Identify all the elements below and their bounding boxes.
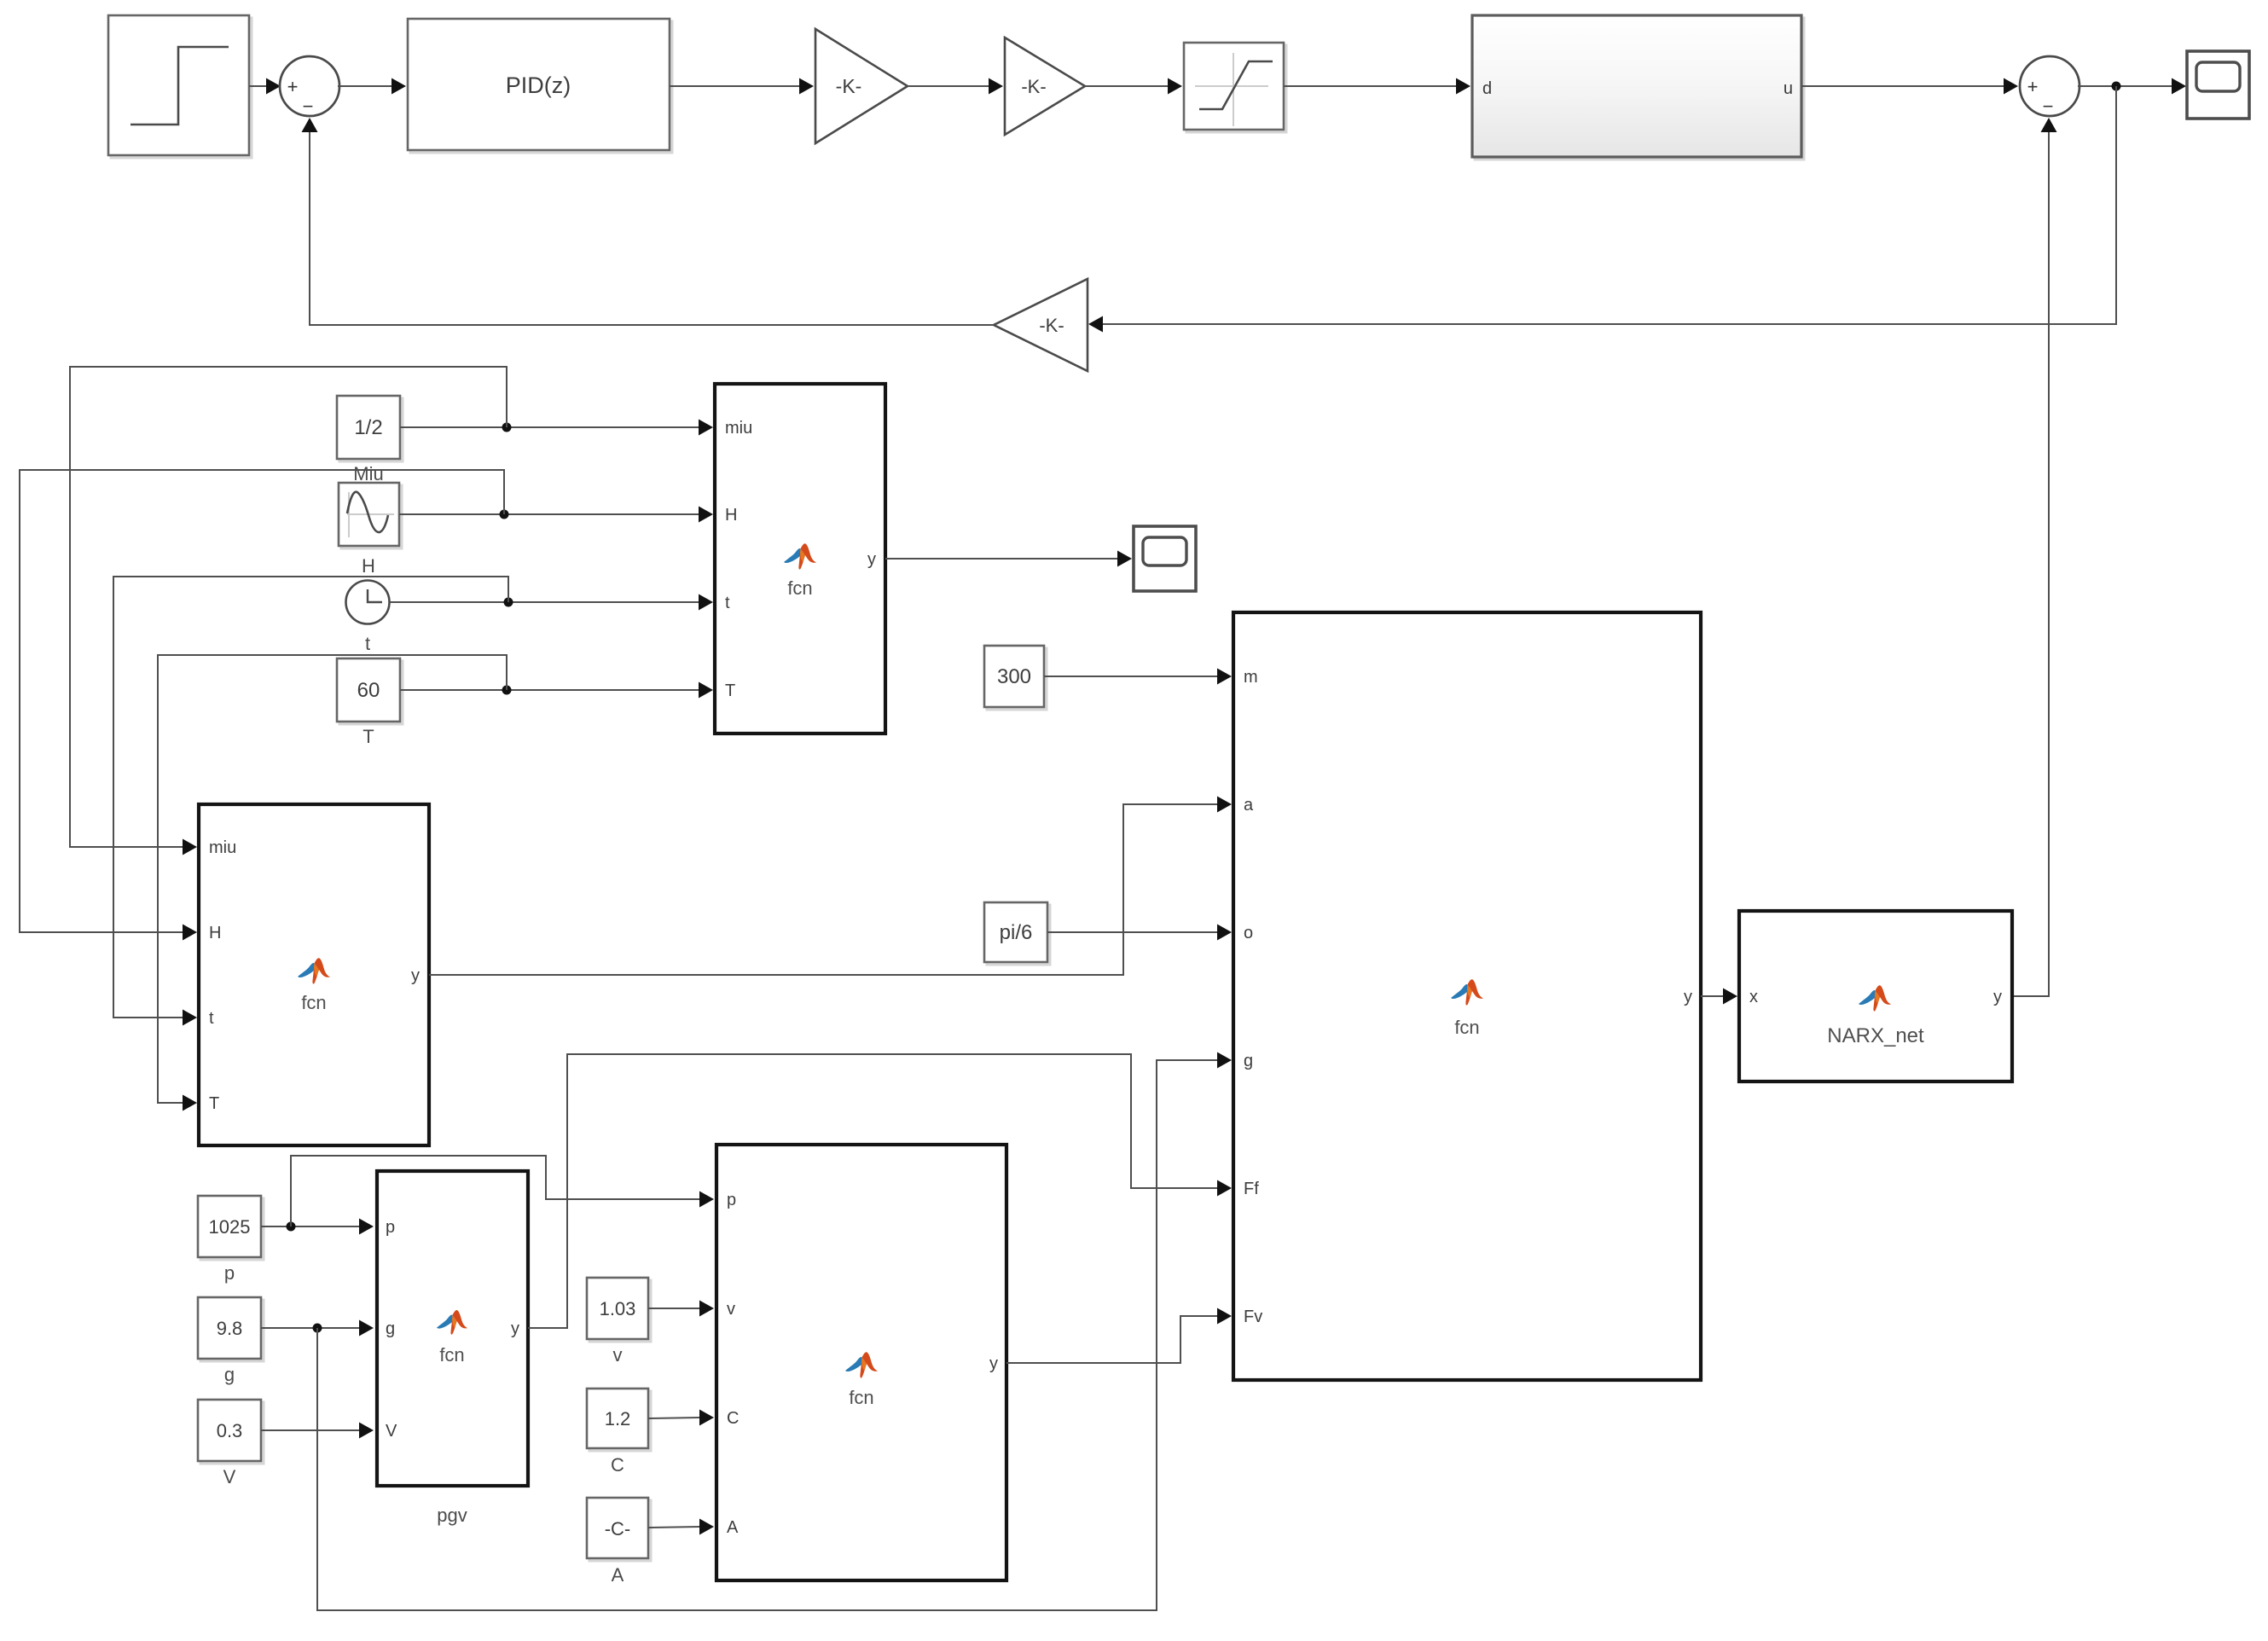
MATLAB function block fcn1 (miu,H,t,T -> y) bbox=[715, 384, 885, 734]
svg-text:H: H bbox=[725, 506, 737, 525]
sine wave source block H bbox=[339, 483, 402, 548]
svg-text:300: 300 bbox=[997, 665, 1031, 688]
svg-text:v: v bbox=[727, 1300, 735, 1319]
MATLAB function block fcn3 (m,a,o,g,Ff,Fv -> y) bbox=[1233, 612, 1701, 1380]
MATLAB function block NARX_net (x -> y) bbox=[1739, 911, 2012, 1081]
svg-text:p: p bbox=[386, 1218, 395, 1237]
svg-text:-K-: -K- bbox=[836, 75, 862, 97]
svg-text:+: + bbox=[2027, 76, 2039, 97]
svg-text:-K-: -K- bbox=[1021, 76, 1046, 97]
MATLAB function block fcn4 (p,v,C,A -> y) bbox=[716, 1145, 1006, 1580]
PID controller block PID(z) bbox=[408, 19, 672, 153]
MATLAB function block pgv (p,g,V -> y) bbox=[377, 1171, 528, 1486]
svg-text:pi/6: pi/6 bbox=[1000, 921, 1033, 944]
scope block Scope1 bbox=[2187, 51, 2249, 119]
svg-text:t: t bbox=[209, 1009, 214, 1028]
svg-text:9.8: 9.8 bbox=[217, 1318, 243, 1339]
MATLAB function block fcn2 (miu,H,t,T -> y) bbox=[199, 804, 429, 1145]
wire 1.2 to fcn4 C bbox=[648, 1410, 714, 1426]
svg-text:Fv: Fv bbox=[1244, 1308, 1262, 1326]
wire fcn3 y to NARX_net x bbox=[1701, 989, 1737, 1005]
svg-text:fcn: fcn bbox=[849, 1387, 873, 1408]
constant block pi/6 bbox=[984, 902, 1050, 965]
svg-text:fcn: fcn bbox=[301, 992, 326, 1013]
gain block K1 (-K-) bbox=[815, 29, 908, 143]
svg-text:y: y bbox=[989, 1354, 998, 1373]
svg-text:p: p bbox=[224, 1262, 235, 1284]
label T bbox=[363, 726, 374, 747]
svg-text:1.03: 1.03 bbox=[600, 1298, 636, 1319]
wire fcn4 y to fcn3 Fv input bbox=[1006, 1308, 1232, 1364]
clock source block t bbox=[346, 581, 390, 624]
svg-text:-K-: -K- bbox=[1039, 315, 1064, 336]
svg-text:m: m bbox=[1244, 668, 1258, 687]
svg-text:g: g bbox=[1244, 1052, 1253, 1070]
svg-text:A: A bbox=[612, 1564, 624, 1586]
svg-text:Ff: Ff bbox=[1244, 1180, 1259, 1198]
saturation block bbox=[1184, 43, 1286, 132]
step source block Step bbox=[108, 15, 252, 158]
label H bbox=[362, 555, 375, 577]
wire 9.8 to pgv g with junction bbox=[261, 1320, 374, 1337]
svg-text:v: v bbox=[613, 1344, 623, 1366]
constant block 9.8 bbox=[198, 1297, 264, 1361]
svg-text:0.3: 0.3 bbox=[217, 1420, 243, 1441]
wire PID to gain K1 bbox=[670, 78, 814, 95]
wire fcn1 y to scope2 bbox=[885, 551, 1132, 567]
svg-text:-C-: -C- bbox=[605, 1518, 631, 1540]
svg-text:−: − bbox=[303, 96, 314, 117]
svg-text:Miu: Miu bbox=[353, 463, 383, 484]
gain block K2 (-K-) bbox=[1005, 38, 1085, 135]
label V bbox=[223, 1466, 236, 1487]
wire branch 1025 to fcn4 p bbox=[291, 1156, 714, 1226]
wire step to sum junction S1 bbox=[249, 78, 281, 95]
svg-text:V: V bbox=[386, 1422, 397, 1441]
wire subsystem u to sum S2 bbox=[1801, 78, 2018, 95]
wire branch t to fcn2 t bbox=[113, 577, 508, 1026]
svg-text:g: g bbox=[224, 1364, 235, 1385]
wire sine to fcn1 H with junction bbox=[399, 507, 713, 523]
constant block 60 bbox=[337, 658, 403, 724]
svg-text:u: u bbox=[1784, 79, 1793, 98]
sum block S1 (+/-) bbox=[280, 56, 339, 117]
label t bbox=[365, 633, 370, 654]
svg-text:pgv: pgv bbox=[437, 1505, 467, 1526]
svg-text:t: t bbox=[725, 594, 730, 612]
svg-text:H: H bbox=[209, 924, 221, 942]
label Miu bbox=[353, 463, 383, 484]
svg-text:A: A bbox=[727, 1518, 739, 1537]
svg-text:y: y bbox=[411, 966, 420, 985]
svg-text:g: g bbox=[386, 1319, 395, 1338]
svg-text:fcn: fcn bbox=[787, 577, 812, 599]
subsystem plant block (d -> u) bbox=[1472, 15, 1804, 159]
wire S1 to PID bbox=[338, 78, 406, 95]
wire pgv y to fcn3 Ff input bbox=[528, 1054, 1232, 1328]
wire branch H to fcn2 H bbox=[20, 470, 504, 941]
svg-text:t: t bbox=[365, 633, 370, 654]
svg-text:T: T bbox=[725, 681, 735, 700]
wire K1 to gain K2 bbox=[908, 78, 1003, 95]
svg-text:1025: 1025 bbox=[209, 1216, 251, 1238]
constant block 1/2 bbox=[337, 396, 403, 461]
svg-text:1.2: 1.2 bbox=[605, 1408, 631, 1429]
svg-text:PID(z): PID(z) bbox=[506, 72, 571, 98]
constant block 1.2 bbox=[587, 1389, 651, 1451]
wire -C- to fcn4 A bbox=[648, 1519, 714, 1535]
svg-text:C: C bbox=[727, 1409, 739, 1428]
svg-text:T: T bbox=[363, 726, 374, 747]
constant block 0.3 bbox=[198, 1400, 264, 1464]
wire 1.03 to fcn4 v bbox=[648, 1301, 714, 1317]
wire fcn2 y to fcn3 a input bbox=[429, 797, 1232, 976]
label pgv bbox=[437, 1505, 467, 1526]
wire 0.3 to pgv V bbox=[261, 1423, 374, 1439]
svg-text:p: p bbox=[727, 1191, 736, 1209]
svg-text:fcn: fcn bbox=[1454, 1017, 1479, 1038]
wire branch T to fcn2 T bbox=[158, 655, 507, 1111]
svg-text:NARX_net: NARX_net bbox=[1827, 1024, 1924, 1047]
svg-text:+: + bbox=[287, 76, 299, 97]
wire NARX_net y to S2 minus input bbox=[2012, 118, 2057, 996]
svg-text:o: o bbox=[1244, 924, 1253, 942]
label p bbox=[224, 1262, 235, 1284]
svg-text:y: y bbox=[1684, 988, 1692, 1006]
constant block -C- bbox=[587, 1498, 651, 1561]
wire S2 to scope with junction node bbox=[2078, 78, 2186, 95]
wire 1025 to pgv p with junction bbox=[261, 1219, 374, 1235]
svg-text:x: x bbox=[1749, 988, 1758, 1006]
svg-text:y: y bbox=[1993, 988, 2002, 1006]
svg-text:T: T bbox=[209, 1094, 219, 1113]
wire 60 to fcn1 T with junction bbox=[400, 682, 713, 699]
label A bbox=[612, 1564, 624, 1586]
wire branch 9.8 to fcn3 g input bbox=[317, 1052, 1232, 1611]
label g bbox=[224, 1364, 235, 1385]
wire K2 to saturation bbox=[1085, 78, 1182, 95]
constant block 1025 bbox=[198, 1196, 264, 1260]
label C bbox=[611, 1454, 624, 1476]
svg-text:y: y bbox=[867, 550, 876, 569]
wire 300 to fcn3 m bbox=[1044, 669, 1232, 685]
svg-text:V: V bbox=[223, 1466, 236, 1487]
constant block 1.03 bbox=[587, 1278, 651, 1342]
wire branch miu to fcn2 miu bbox=[70, 367, 507, 855]
svg-text:d: d bbox=[1482, 79, 1492, 98]
wire K3 output to S1 minus input bbox=[302, 118, 995, 325]
svg-text:C: C bbox=[611, 1454, 624, 1476]
svg-text:1/2: 1/2 bbox=[354, 416, 382, 439]
wire saturation to subsystem d bbox=[1284, 78, 1470, 95]
svg-text:−: − bbox=[2043, 96, 2054, 117]
svg-text:60: 60 bbox=[357, 679, 380, 702]
scope block Scope2 bbox=[1134, 526, 1196, 591]
wire 1/2 to fcn1 miu with junction bbox=[400, 420, 713, 436]
wire clock to fcn1 t with junction bbox=[389, 594, 713, 611]
wire pi/6 to fcn3 o bbox=[1047, 925, 1232, 941]
constant block 300 bbox=[984, 646, 1047, 710]
svg-text:H: H bbox=[362, 555, 375, 577]
feedback gain block K3 (-K-) bbox=[994, 279, 1088, 371]
label v bbox=[613, 1344, 623, 1366]
svg-text:miu: miu bbox=[209, 838, 236, 857]
wire feedback from junction to gain K3 bbox=[1088, 86, 2116, 333]
svg-text:a: a bbox=[1244, 796, 1254, 815]
svg-text:fcn: fcn bbox=[439, 1344, 464, 1366]
svg-text:miu: miu bbox=[725, 419, 752, 438]
sum block S2 (+/-) bbox=[2020, 56, 2079, 117]
svg-text:y: y bbox=[511, 1319, 519, 1338]
